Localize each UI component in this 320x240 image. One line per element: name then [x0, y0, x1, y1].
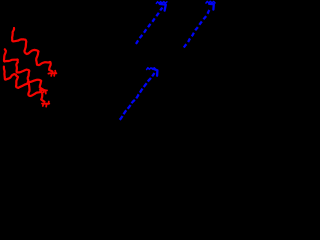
incident photon wave 3 [4, 67, 49, 107]
incident photon wave 2 [4, 49, 47, 93]
incident photon wave 1 [12, 28, 56, 76]
photoelectron arrow 3 [120, 68, 158, 120]
photoelectron arrow 1 (dashed) [136, 2, 167, 44]
photoelectron arrow 2 (dashed) [184, 1, 215, 47]
